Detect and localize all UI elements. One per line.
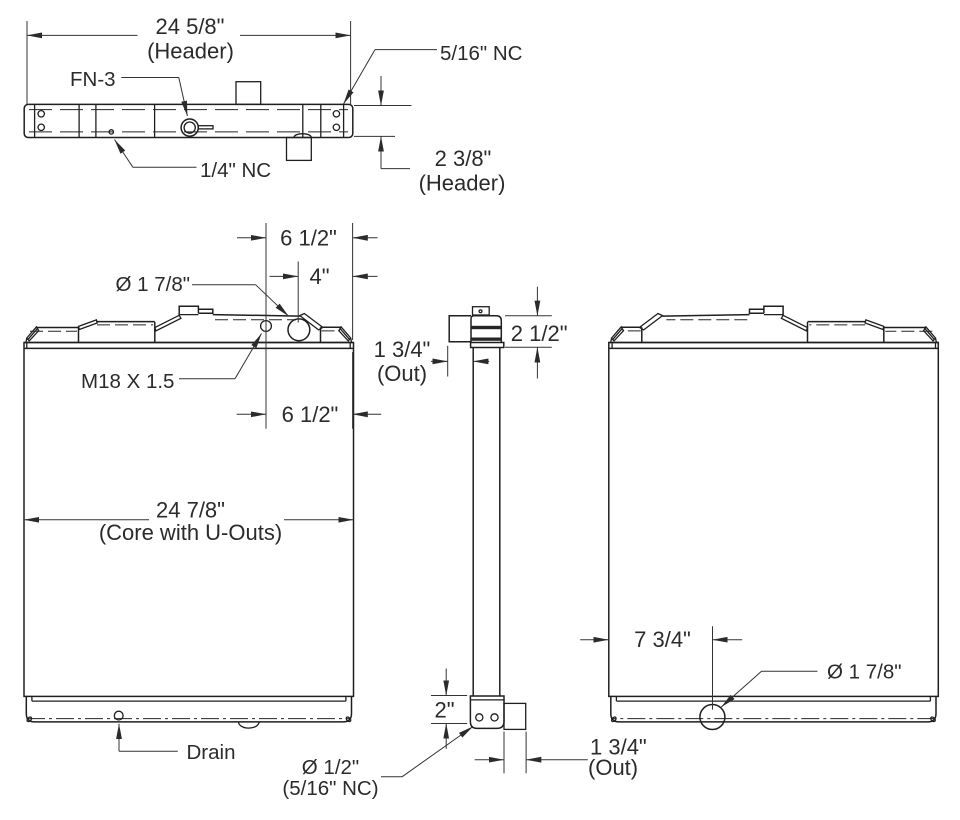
dimension 4 extension line [297, 262, 299, 323]
leader M18 [179, 378, 235, 380]
front bottom tank [26, 696, 351, 722]
dimension 6 1/2 top arrows [237, 237, 266, 239]
svg-text:2 3/8": 2 3/8" [435, 146, 492, 171]
leader dia 1 7/8 front [192, 284, 256, 286]
side core body lines [473, 348, 500, 697]
rear top tank (mirrored) [609, 306, 938, 348]
dimension 6 1/2 top extension lines [266, 223, 353, 429]
svg-text:24 5/8": 24 5/8" [156, 14, 225, 39]
outlet bump on header bottom [294, 134, 311, 138]
bottom outlet bump front [238, 722, 259, 728]
svg-text:(Out): (Out) [377, 361, 427, 386]
side bottom tank holes [476, 714, 483, 721]
svg-text:2": 2" [434, 698, 454, 723]
bottom tab on header [287, 138, 312, 161]
svg-text:(5/16" NC): (5/16" NC) [282, 777, 378, 800]
leader dia 1 7/8 rear [762, 670, 818, 672]
dimension 24 5/8 line with arrows [27, 34, 138, 36]
dimension 7 3/4 arrows [580, 639, 608, 641]
leader dia 1/2 [381, 776, 402, 778]
svg-text:6 1/2": 6 1/2" [280, 226, 337, 251]
side outlet flange [471, 343, 504, 348]
leader Drain [118, 724, 120, 752]
svg-text:(Core with U-Outs): (Core with U-Outs) [99, 520, 282, 545]
svg-text:(Out): (Out) [588, 755, 638, 780]
dimension 2 extension lines [431, 696, 467, 724]
drain hole [114, 711, 123, 720]
dimension 2 3/8 extension lines [354, 106, 412, 137]
side outlet block [471, 316, 501, 343]
svg-text:2 1/2": 2 1/2" [511, 321, 568, 346]
leader 1/4 NC [133, 166, 197, 168]
dimension 2 1/2 arrows [536, 287, 538, 316]
front core body [24, 343, 354, 697]
svg-text:FN-3: FN-3 [70, 68, 116, 91]
dimension 1 3/4 top arrows [431, 360, 448, 362]
side mounting tab with hole [473, 307, 490, 315]
header bolt holes right [333, 111, 339, 117]
side bottom tank [470, 696, 504, 728]
header bolt holes left [38, 111, 44, 117]
dimension 2 arrows [445, 669, 447, 696]
dimension 6 1/2 bottom arrows [237, 413, 266, 415]
leader FN-3 [121, 77, 179, 79]
svg-text:Ø 1 7/8": Ø 1 7/8" [115, 273, 190, 296]
rear outlet circle [700, 705, 725, 730]
leader 5/16 NC [375, 49, 437, 51]
svg-text:(Header): (Header) [419, 171, 506, 196]
filler neck FN-3 [181, 119, 213, 136]
svg-text:M18 X 1.5: M18 X 1.5 [81, 370, 174, 393]
svg-text:5/16" NC: 5/16" NC [440, 42, 523, 65]
header centerlines dashed [29, 110, 348, 132]
svg-text:Drain: Drain [187, 741, 236, 764]
dimension 24 5/8 extension lines [27, 21, 351, 104]
rear bottom tank (mirrored) [611, 696, 936, 722]
svg-text:Ø 1/2": Ø 1/2" [302, 756, 359, 779]
header end cap lines [35, 104, 344, 137]
dimension 2 1/2 extension lines [505, 316, 552, 348]
top tab on header [236, 82, 261, 105]
side bottom outlet [504, 703, 526, 729]
M18 X 1.5 boss circle [261, 321, 272, 332]
svg-text:24 7/8": 24 7/8" [156, 497, 225, 522]
dimension 1 3/4 bottom extension lines [504, 732, 526, 774]
svg-text:1/4" NC: 1/4" NC [200, 159, 271, 182]
svg-text:7 3/4": 7 3/4" [634, 627, 691, 652]
dimension 1 3/4 bottom arrows [475, 759, 504, 761]
side outlet bead bands [471, 326, 501, 329]
dimension 24 7/8 arrows [24, 519, 149, 521]
header bar outline [24, 104, 353, 137]
dimension 2 3/8 arrows [380, 76, 382, 106]
svg-text:(Header): (Header) [147, 39, 234, 64]
side top tank profile [449, 316, 471, 342]
svg-text:1 3/4": 1 3/4" [374, 337, 431, 362]
svg-text:Ø 1 7/8": Ø 1 7/8" [827, 661, 902, 684]
rear core body [609, 343, 939, 697]
svg-text:4": 4" [309, 264, 329, 289]
header seam lines [79, 104, 321, 137]
dimension 4 arrows [270, 275, 299, 277]
svg-text:6 1/2": 6 1/2" [282, 402, 339, 427]
front top tank [24, 306, 353, 348]
1/4 NC hole [109, 130, 113, 134]
filler neck circle front [288, 319, 310, 341]
